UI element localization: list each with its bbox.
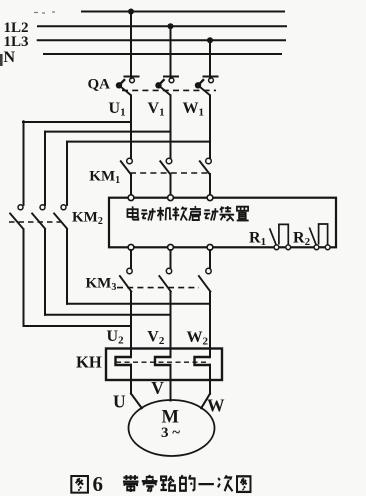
svg-text:U2: U2	[107, 328, 125, 347]
svg-text:KM3: KM3	[86, 276, 117, 294]
svg-text:V1: V1	[148, 100, 165, 119]
svg-text:KM1: KM1	[89, 169, 120, 187]
svg-text:W: W	[207, 396, 225, 416]
svg-text:W2: W2	[187, 329, 209, 348]
svg-text:W1: W1	[183, 100, 205, 119]
svg-text:KM2: KM2	[72, 210, 103, 228]
svg-text:KH: KH	[76, 353, 102, 372]
svg-text:U1: U1	[109, 100, 126, 119]
svg-text:N: N	[4, 49, 16, 66]
svg-text:3 ~: 3 ~	[161, 425, 180, 441]
svg-text:V2: V2	[147, 329, 165, 348]
svg-text:1L3: 1L3	[4, 34, 29, 50]
svg-text:V: V	[151, 378, 164, 398]
svg-text:R2: R2	[293, 229, 311, 248]
svg-text:R1: R1	[249, 229, 266, 248]
svg-text:6: 6	[93, 472, 104, 496]
svg-text:U: U	[113, 392, 126, 412]
svg-text:QA: QA	[88, 77, 111, 93]
